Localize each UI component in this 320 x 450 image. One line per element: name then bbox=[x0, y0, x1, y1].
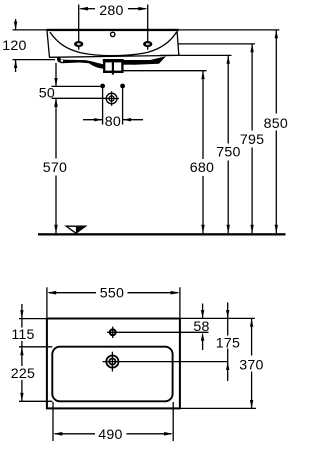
bowl inner curve right bbox=[112, 32, 177, 56]
svg-text:80: 80 bbox=[105, 114, 121, 130]
basin front view: rim top edge bbox=[47, 29, 179, 31]
overflow hole bbox=[111, 32, 115, 36]
svg-text:850: 850 bbox=[264, 116, 288, 132]
floor level triangle bbox=[66, 226, 85, 234]
tap hole (plan) bbox=[107, 327, 118, 338]
dimension 850 (vertical) bbox=[264, 30, 288, 233]
basin front view: left edge bbox=[47, 30, 50, 58]
floor line bbox=[38, 233, 286, 235]
svg-text:50: 50 bbox=[39, 85, 55, 101]
extension line 850 (rim level) bbox=[179, 29, 279, 31]
under-basin shell band right bbox=[123, 56, 167, 65]
dimension 80 (bolt spacing) bbox=[83, 89, 143, 131]
under-basin shell band left bbox=[57, 57, 104, 69]
wall bolt dot right bbox=[120, 84, 125, 89]
svg-text:120: 120 bbox=[2, 38, 26, 54]
svg-text:680: 680 bbox=[190, 160, 214, 176]
dimension 680 (vertical) bbox=[190, 71, 214, 234]
basin front view: underside line bbox=[49, 55, 178, 57]
drain (plan) bbox=[103, 352, 123, 372]
svg-text:550: 550 bbox=[100, 285, 124, 301]
dimension 225 (plan left) bbox=[11, 347, 35, 402]
bowl inner curve left bbox=[50, 32, 112, 56]
right extension lines (plan) bbox=[181, 317, 255, 319]
dimension 570 (vertical, left) bbox=[43, 98, 67, 233]
tap hole left (front) bbox=[74, 41, 83, 47]
svg-text:570: 570 bbox=[43, 160, 67, 176]
svg-text:175: 175 bbox=[216, 336, 240, 352]
extension line 795 (tap level) bbox=[178, 43, 256, 45]
drain symbol (front view) bbox=[104, 91, 119, 105]
drain box (front view) bbox=[103, 59, 124, 75]
tap hole right (front) bbox=[143, 41, 152, 47]
dimension 550 (plan width) bbox=[47, 285, 180, 317]
dimension 280 (tap hole spacing, front view) bbox=[79, 3, 148, 50]
svg-text:115: 115 bbox=[11, 327, 34, 343]
dimension 750 (vertical) bbox=[216, 55, 240, 233]
svg-text:225: 225 bbox=[11, 366, 35, 382]
bowl rounded rectangle (plan) bbox=[52, 347, 172, 402]
dimension 58 (plan right) bbox=[193, 304, 209, 351]
svg-text:795: 795 bbox=[240, 132, 264, 148]
svg-text:58: 58 bbox=[193, 319, 209, 335]
extension line 750 (basin underside) bbox=[160, 54, 232, 56]
dimension 120 (left) bbox=[2, 19, 55, 72]
extension line 680 (drain box bottom) bbox=[124, 70, 207, 72]
deck rectangle (plan) bbox=[47, 319, 180, 409]
svg-text:750: 750 bbox=[216, 144, 240, 160]
svg-text:280: 280 bbox=[99, 3, 123, 19]
dimension 370 (plan right) bbox=[239, 318, 263, 408]
dimension 490 (plan bottom) bbox=[53, 402, 173, 443]
left extension lines (plan) bbox=[19, 318, 46, 320]
dimension 50 (left, bolt to drain) bbox=[39, 63, 106, 107]
svg-text:370: 370 bbox=[239, 357, 263, 373]
wall bolt dot left bbox=[100, 84, 105, 89]
dimension 115 (plan left) bbox=[11, 304, 34, 355]
dimension 175 (plan right) bbox=[216, 303, 240, 382]
svg-text:490: 490 bbox=[98, 427, 122, 443]
basin front view: right edge bbox=[177, 31, 179, 56]
dimension 795 (vertical) bbox=[240, 44, 264, 233]
